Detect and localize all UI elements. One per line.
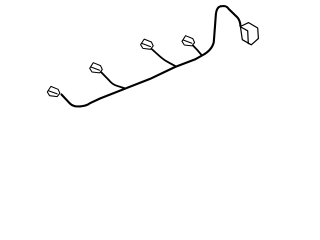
wiring harness line drawing — [0, 0, 300, 119]
connector C3 — [141, 39, 154, 49]
wire branch from connector 2 to trunk junction — [101, 72, 126, 89]
wire branch from connector 3 to trunk junction — [150, 48, 176, 67]
wire main trunk — [62, 6, 241, 106]
connector C4 — [182, 36, 195, 46]
wire branch from connector 4 to trunk junction — [193, 45, 202, 55]
connector C1 (leftmost small plug) — [47, 86, 60, 96]
connector C5 (large plug at right) — [240, 23, 258, 45]
connector C2 — [90, 63, 103, 73]
